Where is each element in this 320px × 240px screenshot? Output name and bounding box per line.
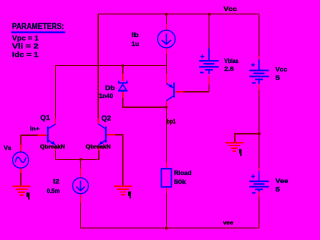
svg-text:Idc = 1: Idc = 1 bbox=[12, 52, 39, 59]
svg-text:Vbias: Vbias bbox=[224, 59, 239, 65]
svg-text:Rload: Rload bbox=[174, 171, 192, 177]
svg-text:1u: 1u bbox=[132, 42, 140, 48]
svg-text:Db: Db bbox=[105, 86, 115, 92]
svg-text:bp1: bp1 bbox=[167, 120, 176, 126]
svg-text:Vpc = 1: Vpc = 1 bbox=[12, 35, 39, 42]
svg-text:PARAMETERS:: PARAMETERS: bbox=[12, 22, 64, 31]
svg-text:Q2: Q2 bbox=[101, 115, 111, 122]
svg-text:Vs: Vs bbox=[4, 145, 12, 152]
svg-text:0.5m: 0.5m bbox=[47, 189, 60, 195]
svg-text:Vli = 2: Vli = 2 bbox=[12, 44, 39, 51]
svg-text:vee: vee bbox=[223, 220, 233, 226]
svg-text:Vcc: Vcc bbox=[224, 7, 238, 13]
svg-text:In+: In+ bbox=[30, 126, 40, 132]
svg-text:1n40: 1n40 bbox=[99, 94, 114, 100]
svg-text:Q1: Q1 bbox=[40, 115, 50, 122]
svg-text:2.6: 2.6 bbox=[224, 67, 234, 73]
svg-text:Ib: Ib bbox=[132, 33, 140, 39]
svg-text:I2: I2 bbox=[53, 179, 60, 185]
svg-text:Vee: Vee bbox=[275, 179, 289, 185]
svg-text:QbreakN: QbreakN bbox=[86, 145, 111, 151]
svg-text:Vcc: Vcc bbox=[275, 68, 288, 74]
svg-text:QbreakN: QbreakN bbox=[40, 144, 65, 150]
svg-text:50k: 50k bbox=[174, 180, 187, 186]
